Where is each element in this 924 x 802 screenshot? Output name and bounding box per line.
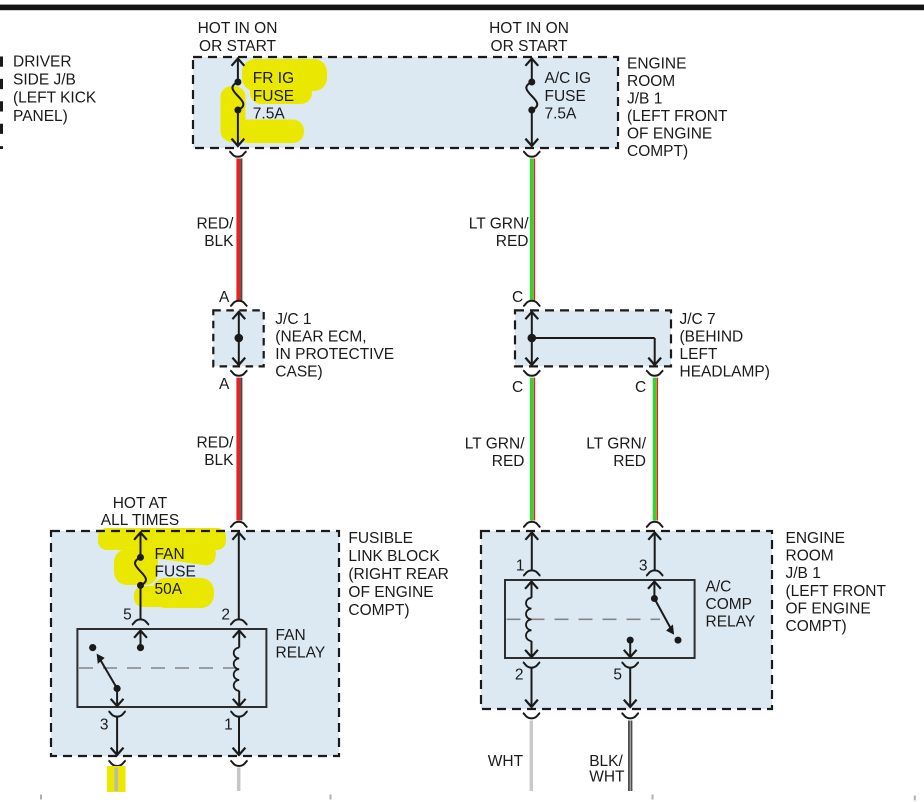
wire WHT below right J/B: [530, 721, 534, 792]
svg-text:ENGINE: ENGINE: [786, 530, 845, 547]
wire WHT (highlighted) below left J/B: [114, 768, 118, 792]
svg-text:LINK BLOCK: LINK BLOCK: [348, 548, 440, 565]
svg-text:BLK: BLK: [204, 233, 234, 250]
pin 5 wire below a/c relay: [622, 662, 639, 707]
svg-text:ALL TIMES: ALL TIMES: [101, 512, 179, 529]
svg-text:HEADLAMP): HEADLAMP): [680, 363, 770, 380]
svg-text:LT GRN/: LT GRN/: [465, 436, 525, 453]
svg-text:5: 5: [613, 667, 622, 684]
page tick marks: [40, 795, 42, 800]
wire into right J/B pin 3: [646, 522, 663, 576]
svg-text:FUSE: FUSE: [545, 88, 586, 105]
svg-text:LT GRN/: LT GRN/: [469, 215, 529, 232]
svg-text:J/C 1: J/C 1: [275, 311, 311, 328]
svg-text:SIDE J/B: SIDE J/B: [13, 72, 76, 89]
svg-text:FAN: FAN: [276, 627, 306, 644]
wire LT GRN/RED upper segment: [532, 159, 535, 301]
re-draw left J/B top dashed edge over highlight: [96, 530, 228, 532]
svg-text:COMPT): COMPT): [786, 618, 847, 635]
svg-text:OF ENGINE: OF ENGINE: [627, 126, 712, 143]
relay A/C COMP RELAY box: [505, 580, 695, 658]
svg-text:FR IG: FR IG: [253, 70, 294, 87]
svg-text:RED: RED: [492, 453, 525, 470]
svg-text:A: A: [219, 289, 230, 306]
svg-text:ENGINE: ENGINE: [627, 56, 686, 73]
highlighter mark over FR IG FUSE: [221, 59, 328, 143]
svg-text:OF ENGINE: OF ENGINE: [786, 600, 871, 617]
svg-text:WHT: WHT: [589, 769, 625, 786]
a/c relay mechanical link (dashed): [507, 618, 661, 620]
junction connector J/C 7: [512, 289, 671, 396]
svg-text:OR START: OR START: [199, 38, 276, 55]
svg-text:RELAY: RELAY: [706, 614, 756, 631]
svg-text:HOT AT: HOT AT: [113, 495, 168, 512]
svg-text:J/B 1: J/B 1: [627, 91, 662, 108]
svg-text:2: 2: [515, 667, 524, 684]
svg-text:2: 2: [221, 606, 230, 623]
svg-text:A: A: [219, 376, 230, 393]
svg-text:FUSE: FUSE: [253, 88, 294, 105]
svg-text:(BEHIND: (BEHIND: [680, 328, 744, 345]
svg-text:RED/: RED/: [196, 215, 234, 232]
svg-text:BLK/: BLK/: [589, 753, 623, 770]
wire into right J/B pin 1: [523, 522, 540, 576]
svg-text:(RIGHT REAR: (RIGHT REAR: [348, 566, 448, 583]
fuse FAN 50A: [132, 532, 149, 625]
svg-text:1: 1: [224, 717, 233, 734]
svg-text:C: C: [635, 379, 646, 396]
svg-text:(LEFT KICK: (LEFT KICK: [13, 90, 97, 107]
svg-text:LT GRN/: LT GRN/: [586, 436, 646, 453]
highlighter mark over FAN FUSE: [98, 528, 226, 608]
wire RED/BLK lower segment: [238, 378, 241, 521]
svg-text:RED: RED: [613, 453, 646, 470]
fan relay switch: [89, 630, 147, 707]
engine room J/B 1 (right J/B box): [481, 531, 772, 709]
svg-text:3: 3: [639, 557, 648, 574]
svg-text:(NEAR ECM,: (NEAR ECM,: [275, 328, 366, 345]
fan relay mechanical link (dashed): [79, 667, 238, 669]
connector cup below top box (right): [523, 151, 540, 156]
svg-text:J/C 7: J/C 7: [680, 311, 716, 328]
svg-text:WHT: WHT: [488, 753, 524, 770]
svg-text:50A: 50A: [155, 581, 183, 598]
svg-text:CASE): CASE): [275, 363, 322, 380]
svg-text:COMPT): COMPT): [627, 143, 688, 160]
svg-text:BLK: BLK: [204, 452, 234, 469]
relay FAN RELAY box: [77, 629, 266, 707]
highlighter mark on left WHT wire: [107, 766, 126, 792]
svg-text:(LEFT FRONT: (LEFT FRONT: [627, 108, 728, 125]
svg-text:3: 3: [100, 717, 109, 734]
pin 3 wire below fan relay: [109, 711, 126, 755]
svg-text:LEFT: LEFT: [680, 346, 718, 363]
wire WHT below left J/B pin 1: [237, 768, 241, 792]
svg-text:FUSIBLE: FUSIBLE: [348, 530, 413, 547]
svg-text:A/C IG: A/C IG: [545, 70, 592, 87]
svg-text:RED: RED: [496, 233, 529, 250]
svg-text:FAN: FAN: [155, 546, 185, 563]
svg-text:7.5A: 7.5A: [545, 106, 578, 123]
svg-text:COMP: COMP: [706, 596, 753, 613]
junction connector J/C 1: [213, 289, 263, 393]
svg-text:HOT IN ON: HOT IN ON: [198, 20, 278, 37]
svg-text:OR START: OR START: [491, 38, 568, 55]
wire LT GRN/RED lower right segment: [655, 378, 658, 521]
diagram top border frame: [0, 5, 924, 11]
svg-text:C: C: [512, 289, 523, 306]
wire into left J/B from RED/BLK: [230, 522, 247, 625]
svg-text:J/B 1: J/B 1: [786, 565, 821, 582]
svg-text:ROOM: ROOM: [627, 73, 675, 90]
svg-text:ROOM: ROOM: [786, 548, 834, 565]
fuse A/C IG 7.5A: [525, 58, 538, 146]
fusible link block (left J/B box): [51, 531, 339, 756]
svg-text:C: C: [512, 379, 523, 396]
wire RED/BLK upper segment: [238, 159, 241, 301]
svg-text:OF ENGINE: OF ENGINE: [348, 584, 433, 601]
svg-text:FUSE: FUSE: [155, 564, 196, 581]
pin 1 wire below fan relay: [230, 711, 247, 755]
svg-text:A/C: A/C: [706, 579, 732, 596]
connector cups below left J/B: [109, 761, 126, 766]
driver side J/B box edge (cropped at left): [0, 57, 3, 150]
svg-text:7.5A: 7.5A: [253, 106, 286, 123]
svg-text:RELAY: RELAY: [276, 645, 326, 662]
svg-text:HOT IN ON: HOT IN ON: [489, 20, 569, 37]
svg-text:PANEL): PANEL): [13, 108, 68, 125]
fan relay coil: [233, 630, 246, 707]
svg-text:5: 5: [123, 606, 132, 623]
fuse FR IG 7.5A: [232, 58, 245, 146]
a/c relay switch: [624, 581, 682, 658]
a/c relay coil: [525, 581, 538, 658]
connector cup below top box (left): [229, 151, 246, 156]
connector cups below right J/B: [523, 713, 540, 718]
wire BLK/WHT below right J/B: [628, 721, 632, 792]
svg-text:IN PROTECTIVE: IN PROTECTIVE: [275, 346, 394, 363]
svg-text:DRIVER: DRIVER: [13, 53, 72, 70]
svg-text:COMPT): COMPT): [348, 602, 409, 619]
pin 2 wire below a/c relay: [523, 662, 540, 707]
wire LT GRN/RED lower left segment: [532, 378, 535, 521]
svg-text:(LEFT FRONT: (LEFT FRONT: [786, 583, 887, 600]
svg-text:1: 1: [516, 557, 525, 574]
svg-text:RED/: RED/: [196, 435, 234, 452]
junction block: ENGINE ROOM J/B 1 (top box): [193, 57, 618, 148]
